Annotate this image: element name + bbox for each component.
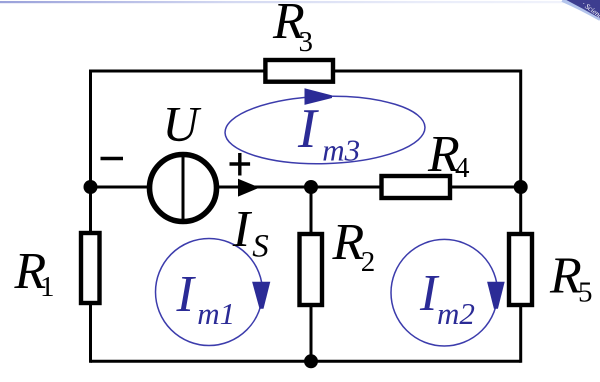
- wire left: left branch with R1: [89, 70, 92, 363]
- label Is: [232, 201, 269, 265]
- svg-text:1: 1: [40, 271, 55, 303]
- svg-text:m3: m3: [322, 133, 360, 168]
- label R5: [549, 247, 593, 308]
- resistor R3: [265, 60, 333, 82]
- svg-text:m1: m1: [197, 296, 235, 331]
- node B (right): [514, 180, 528, 194]
- label R4: [427, 126, 470, 184]
- wire middle vertical: R2 branch: [310, 187, 313, 361]
- resistor R4: [382, 176, 451, 198]
- label Im1: [176, 266, 236, 331]
- svg-text:R: R: [549, 247, 582, 304]
- mesh loop Im2: [391, 239, 505, 346]
- label Im2: [419, 265, 475, 331]
- svg-text:2: 2: [361, 246, 376, 278]
- svg-text:U: U: [163, 96, 202, 152]
- node bottom: [304, 354, 318, 368]
- svg-text:I: I: [232, 201, 253, 258]
- resistor R5: [509, 234, 532, 305]
- label R1: [14, 243, 55, 303]
- resistor R1: [81, 233, 100, 303]
- mesh loop Im1: [156, 239, 271, 346]
- wire bottom: [91, 360, 521, 363]
- resistor R2: [300, 234, 323, 305]
- polarity minus: [101, 157, 124, 161]
- node left (source minus node): [84, 180, 98, 194]
- label Im3: [297, 98, 360, 168]
- mesh loop Im3: [224, 88, 426, 166]
- wire top: from top-left corner to top-right corner through R3: [91, 70, 521, 73]
- svg-text:m2: m2: [437, 296, 475, 331]
- wire right: right branch with R5: [519, 70, 522, 363]
- svg-text:S: S: [252, 229, 268, 265]
- node A (centre): [304, 180, 318, 194]
- svg-text:R: R: [332, 214, 365, 271]
- label R2: [332, 214, 376, 278]
- svg-text:3: 3: [299, 26, 314, 58]
- label R3: [272, 0, 313, 58]
- source current arrow: [238, 179, 260, 197]
- svg-text:I: I: [297, 98, 319, 160]
- svg-text:5: 5: [578, 277, 593, 309]
- svg-text:4: 4: [455, 152, 470, 184]
- wire middle horizontal: source branch and R4 branch: [91, 186, 521, 189]
- svg-text:I: I: [176, 266, 197, 323]
- polarity plus: [230, 153, 251, 176]
- source U/Is: circle with vertical bar: [150, 152, 217, 224]
